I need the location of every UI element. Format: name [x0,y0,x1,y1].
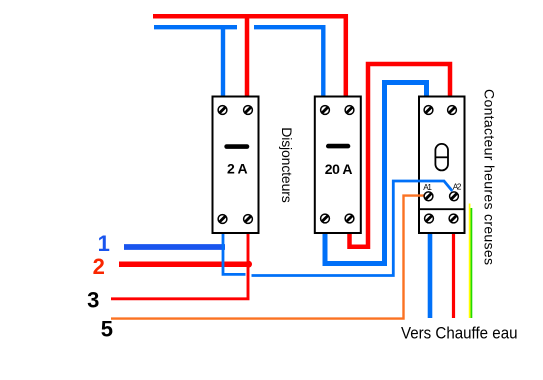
svg-text:1: 1 [98,231,110,256]
svg-text:Disjoncteurs: Disjoncteurs [279,127,295,203]
svg-text:Vers Chauffe eau: Vers Chauffe eau [401,324,518,343]
svg-text:Contacteur heures creuses: Contacteur heures creuses [482,89,498,265]
svg-text:5: 5 [101,316,113,341]
svg-text:A1: A1 [423,183,432,192]
svg-text:2 A: 2 A [227,161,248,177]
svg-text:A2: A2 [453,183,462,192]
svg-text:20 A: 20 A [325,161,353,177]
svg-text:3: 3 [87,287,99,312]
svg-text:2: 2 [93,254,105,279]
